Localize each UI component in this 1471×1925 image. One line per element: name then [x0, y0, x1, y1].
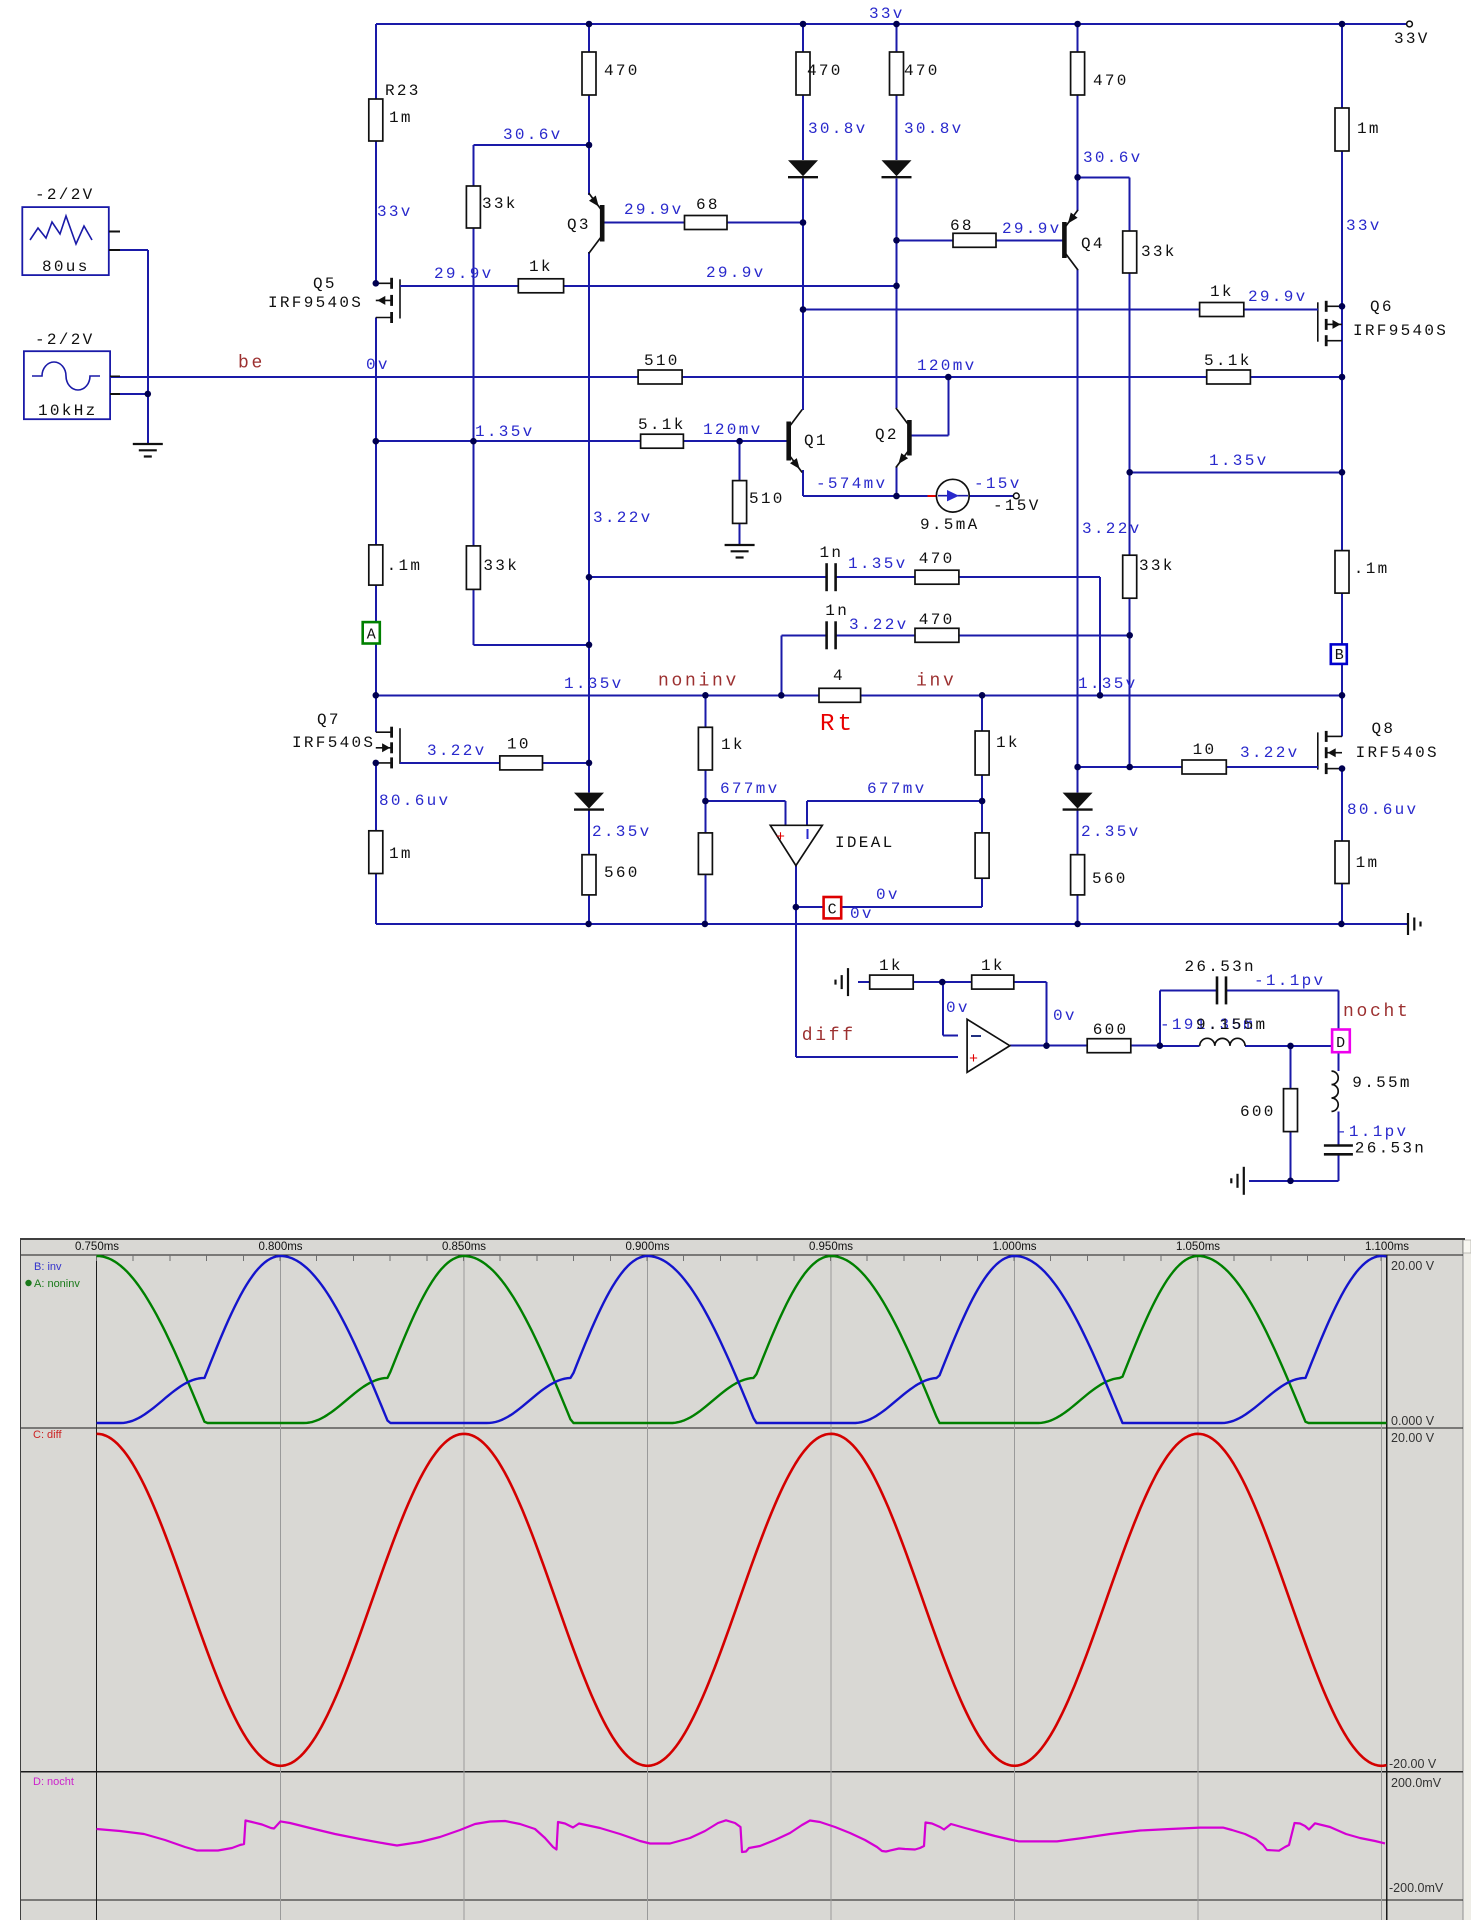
svg-text:D: D	[1336, 1035, 1345, 1052]
svg-text:33v: 33v	[869, 5, 905, 23]
svg-text:.1m: .1m	[1354, 560, 1390, 578]
svg-text:A: noninv: A: noninv	[34, 1278, 80, 1290]
svg-text:1.050ms: 1.050ms	[1176, 1241, 1220, 1253]
svg-text:-2/2V: -2/2V	[35, 186, 95, 204]
svg-text:30.6v: 30.6v	[1083, 149, 1143, 167]
svg-text:1k: 1k	[879, 957, 903, 975]
svg-text:0.800ms: 0.800ms	[258, 1241, 302, 1253]
svg-text:-1.1pv: -1.1pv	[1337, 1123, 1408, 1141]
svg-text:.1m: .1m	[387, 557, 423, 575]
svg-text:0v: 0v	[850, 905, 874, 923]
svg-text:1m: 1m	[1357, 120, 1381, 138]
svg-text:80.6uv: 80.6uv	[379, 792, 450, 810]
svg-text:1m: 1m	[1356, 854, 1380, 872]
svg-text:Q6: Q6	[1370, 298, 1394, 316]
svg-text:1m: 1m	[389, 109, 413, 127]
svg-text:1.35v: 1.35v	[1078, 675, 1138, 693]
svg-text:29.9v: 29.9v	[1002, 220, 1062, 238]
svg-text:be: be	[238, 354, 265, 374]
svg-text:-200.0mV: -200.0mV	[1389, 1881, 1444, 1895]
svg-text:IRF540S: IRF540S	[292, 734, 375, 752]
svg-text:5.1k: 5.1k	[638, 416, 686, 434]
svg-text:33V: 33V	[1394, 30, 1430, 48]
svg-text:9.155m: 9.155m	[1196, 1016, 1267, 1034]
svg-text:Q4: Q4	[1081, 235, 1105, 253]
svg-text:diff: diff	[802, 1026, 856, 1046]
svg-text:3.22v: 3.22v	[1082, 520, 1142, 538]
svg-text:1.35v: 1.35v	[564, 675, 624, 693]
svg-text:3.22v: 3.22v	[1240, 744, 1300, 762]
svg-text:2.35v: 2.35v	[1081, 823, 1141, 841]
svg-text:-1.1pv: -1.1pv	[1254, 972, 1325, 990]
svg-text:3.22v: 3.22v	[427, 742, 487, 760]
svg-text:IRF9540S: IRF9540S	[1353, 322, 1448, 340]
svg-text:3.22v: 3.22v	[593, 509, 653, 527]
svg-text:10: 10	[507, 736, 531, 754]
svg-text:1.35v: 1.35v	[475, 423, 535, 441]
svg-text:-2/2V: -2/2V	[35, 331, 95, 349]
svg-text:33k: 33k	[482, 195, 518, 213]
svg-text:29.9v: 29.9v	[706, 264, 766, 282]
svg-text:560: 560	[1092, 870, 1128, 888]
svg-text:10: 10	[1193, 741, 1217, 759]
svg-text:29.9v: 29.9v	[1248, 288, 1308, 306]
svg-text:30.6v: 30.6v	[503, 126, 563, 144]
svg-text:677mv: 677mv	[867, 780, 927, 798]
svg-text:10kHz: 10kHz	[38, 402, 98, 420]
svg-text:600: 600	[1093, 1021, 1129, 1039]
svg-text:33v: 33v	[1346, 217, 1382, 235]
svg-text:33v: 33v	[377, 203, 413, 221]
svg-text:470: 470	[604, 62, 640, 80]
svg-text:470: 470	[807, 62, 843, 80]
svg-text:1n: 1n	[825, 602, 849, 620]
svg-text:B: inv: B: inv	[34, 1261, 62, 1273]
svg-text:-15V: -15V	[993, 497, 1041, 515]
svg-text:26.53n: 26.53n	[1355, 1140, 1426, 1158]
svg-text:0.850ms: 0.850ms	[442, 1241, 486, 1253]
svg-text:D: nocht: D: nocht	[33, 1776, 74, 1788]
svg-text:1.35v: 1.35v	[1209, 452, 1269, 470]
svg-text:Q3: Q3	[567, 216, 591, 234]
svg-text:1k: 1k	[996, 734, 1020, 752]
svg-text:470: 470	[919, 550, 955, 568]
svg-text:0.750ms: 0.750ms	[75, 1241, 119, 1253]
svg-text:0.900ms: 0.900ms	[625, 1241, 669, 1253]
svg-text:5.1k: 5.1k	[1204, 352, 1252, 370]
svg-text:677mv: 677mv	[720, 780, 780, 798]
svg-text:9.5mA: 9.5mA	[920, 516, 980, 534]
svg-text:33k: 33k	[1139, 557, 1175, 575]
svg-text:1n: 1n	[820, 544, 844, 562]
svg-text:0v: 0v	[1053, 1007, 1077, 1025]
svg-text:470: 470	[904, 62, 940, 80]
svg-text:29.9v: 29.9v	[624, 201, 684, 219]
svg-text:68: 68	[696, 196, 720, 214]
svg-text:0v: 0v	[946, 999, 970, 1017]
svg-text:0.950ms: 0.950ms	[809, 1241, 853, 1253]
svg-text:120mv: 120mv	[917, 357, 977, 375]
svg-text:4: 4	[833, 667, 845, 685]
svg-text:470: 470	[919, 611, 955, 629]
svg-text:0v: 0v	[876, 886, 900, 904]
svg-text:80us: 80us	[42, 258, 90, 276]
svg-text:9.55m: 9.55m	[1352, 1074, 1412, 1092]
svg-text:30.8v: 30.8v	[904, 120, 964, 138]
svg-text:29.9v: 29.9v	[434, 265, 494, 283]
svg-text:3.22v: 3.22v	[849, 616, 909, 634]
svg-text:inv: inv	[916, 672, 957, 692]
svg-text:R23: R23	[385, 82, 421, 100]
svg-text:IRF540S: IRF540S	[1356, 744, 1439, 762]
svg-text:1k: 1k	[721, 736, 745, 754]
svg-text:1m: 1m	[389, 845, 413, 863]
svg-text:80.6uv: 80.6uv	[1347, 801, 1418, 819]
svg-text:20.00 V: 20.00 V	[1391, 1431, 1435, 1445]
svg-text:510: 510	[644, 352, 680, 370]
svg-text:600: 600	[1240, 1103, 1276, 1121]
svg-text:-574mv: -574mv	[816, 475, 887, 493]
svg-text:IDEAL: IDEAL	[835, 834, 895, 852]
svg-text:IRF9540S: IRF9540S	[268, 294, 363, 312]
svg-text:26.53n: 26.53n	[1185, 958, 1256, 976]
svg-text:200.0mV: 200.0mV	[1391, 1776, 1442, 1790]
svg-text:nocht: nocht	[1343, 1002, 1411, 1022]
svg-text:1k: 1k	[529, 258, 553, 276]
svg-text:Rt: Rt	[820, 711, 855, 738]
svg-text:30.8v: 30.8v	[808, 120, 868, 138]
svg-text:C: C	[828, 901, 837, 918]
svg-text:2.35v: 2.35v	[592, 823, 652, 841]
svg-text:Q5: Q5	[313, 275, 337, 293]
svg-text:0v: 0v	[366, 356, 390, 374]
svg-text:A: A	[367, 627, 376, 644]
svg-text:C: diff: C: diff	[33, 1429, 62, 1441]
svg-text:+: +	[776, 829, 785, 846]
svg-text:1.35v: 1.35v	[848, 555, 908, 573]
svg-text:560: 560	[604, 864, 640, 882]
svg-text:Q1: Q1	[804, 432, 828, 450]
svg-text:-15v: -15v	[974, 475, 1022, 493]
svg-text:1k: 1k	[1210, 283, 1234, 301]
svg-text:1k: 1k	[981, 957, 1005, 975]
svg-text:+: +	[969, 1051, 978, 1068]
svg-text:120mv: 120mv	[703, 421, 763, 439]
svg-text:20.00 V: 20.00 V	[1391, 1259, 1435, 1273]
svg-text:Q7: Q7	[317, 711, 341, 729]
svg-text:Q2: Q2	[875, 426, 899, 444]
svg-text:0.000 V: 0.000 V	[1391, 1414, 1435, 1428]
svg-text:68: 68	[950, 217, 974, 235]
svg-text:noninv: noninv	[658, 672, 739, 692]
svg-text:-20.00 V: -20.00 V	[1389, 1757, 1437, 1771]
svg-text:33k: 33k	[483, 557, 519, 575]
svg-text:470: 470	[1093, 72, 1129, 90]
svg-text:33k: 33k	[1141, 243, 1177, 261]
svg-text:510: 510	[749, 490, 785, 508]
svg-text:1.100ms: 1.100ms	[1365, 1241, 1409, 1253]
svg-text:1.000ms: 1.000ms	[992, 1241, 1036, 1253]
svg-text:B: B	[1335, 647, 1344, 664]
svg-text:Q8: Q8	[1372, 720, 1396, 738]
